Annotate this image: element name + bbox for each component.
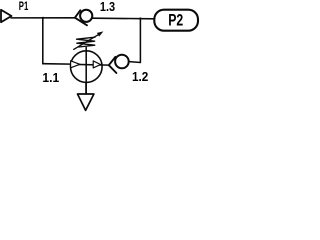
- svg-text:1.3: 1.3: [100, 0, 115, 14]
- exhaust: [78, 94, 94, 110]
- svg-text:1.2: 1.2: [132, 69, 148, 84]
- svg-text:1.1: 1.1: [42, 70, 59, 85]
- wire P1 to check valve 1.3: [11, 17, 75, 19]
- wire 1.3 to P2: [93, 17, 154, 20]
- wire junction A down: [42, 18, 44, 64]
- terminal P2: [154, 10, 198, 31]
- junction node A: [42, 17, 44, 19]
- svg-text:P1: P1: [19, 0, 29, 13]
- wire 1.1 to exhaust: [85, 83, 87, 94]
- svg-text:P2: P2: [168, 11, 183, 29]
- relief valve 1.1: [71, 31, 109, 93]
- check valve 1.2: [109, 55, 129, 73]
- junction node B: [139, 17, 141, 19]
- source P1: [1, 10, 12, 22]
- check valve 1.3: [75, 10, 92, 26]
- wire to relief valve 1.1: [43, 63, 71, 65]
- wire 1.2 to riser: [129, 19, 140, 63]
